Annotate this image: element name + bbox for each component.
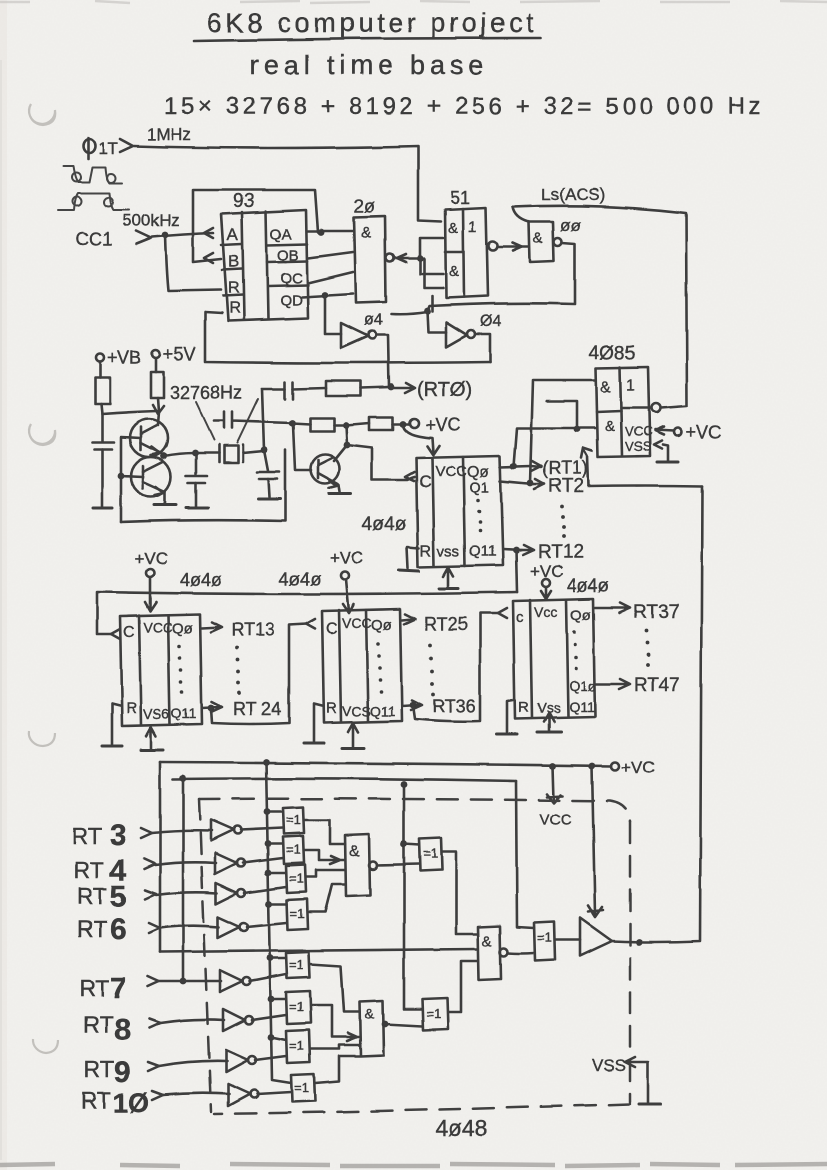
wire Q11 to RT12 — [503, 549, 522, 550]
svg-text:4ø4ø: 4ø4ø — [567, 576, 609, 596]
node +5V terminal — [152, 350, 160, 358]
junction bus xnor5 — [267, 955, 274, 962]
capacitor C1 — [92, 442, 114, 449]
wire RT36 to counter4 clock — [413, 613, 499, 721]
junction crystal left node — [192, 450, 199, 457]
inverter G5 — [220, 970, 243, 992]
wire RT24 to counter3 clock — [211, 624, 307, 724]
ground C2 — [186, 507, 208, 510]
svg-text:VCS: VCS — [342, 703, 371, 719]
xnor X5 — [286, 952, 310, 978]
inverter G3 — [216, 883, 238, 904]
wire T3 base — [293, 425, 311, 470]
wire 00 output loop down to phi4b input — [427, 243, 575, 311]
wire VCC pin arrow — [547, 766, 563, 803]
svg-text:Q11: Q11 — [469, 543, 496, 560]
inverter G6 — [223, 1009, 245, 1031]
chevron RT8 — [149, 1019, 160, 1028]
wire RT8 input — [160, 1019, 224, 1023]
ground U7 R — [102, 745, 122, 748]
leader line crystal label right — [237, 399, 258, 443]
svg-text:VCC: VCC — [435, 463, 467, 480]
wire bus to X7 — [271, 1037, 286, 1040]
counter U9 4040 box — [513, 599, 595, 719]
wire Q11 U8 to RT36 — [402, 700, 422, 710]
ground U9 R — [496, 733, 517, 736]
wire x404 to X9 upper input — [404, 844, 419, 845]
svg-text:4ø4ø: 4ø4ø — [279, 569, 321, 589]
svg-text:500kHz: 500kHz — [122, 211, 180, 230]
wire T2 base — [121, 476, 143, 477]
svg-text:VCC: VCC — [342, 615, 372, 631]
gate U2 2phi NAND box — [354, 216, 386, 303]
wire G3 to X3 — [245, 887, 286, 893]
svg-text:Qø: Qø — [570, 607, 591, 624]
node +VC terminal 4085 — [674, 428, 682, 436]
bubble G4 — [240, 923, 248, 931]
wire C3 to ground — [268, 479, 269, 497]
chevron RT10 — [152, 1091, 163, 1100]
svg-text:+VC: +VC — [425, 415, 461, 435]
capacitor C3 — [257, 472, 279, 479]
wire AND-A out to X9 — [377, 864, 419, 865]
svg-text:RT: RT — [74, 857, 104, 883]
junction x404 to X9 — [401, 841, 408, 848]
svg-text:RT: RT — [84, 1056, 114, 1082]
wire RT9 input — [159, 1061, 227, 1066]
wire inner left bus down to RT7 — [182, 778, 185, 981]
chevron RT6 — [149, 923, 160, 933]
arrowhead on 2phi output — [397, 254, 406, 262]
wire CC1 down to R input of 93 — [165, 235, 221, 291]
waveform doodle — [58, 166, 129, 210]
wire QB to gate 2phi — [308, 252, 353, 258]
wire node to R4 — [292, 423, 310, 424]
inverter G1 — [211, 820, 234, 841]
wire X6 out to AND-C — [311, 1005, 360, 1041]
hole punch 4 — [33, 1039, 58, 1053]
left paper band — [0, 0, 7, 1170]
svg-text:6K8 computer project: 6K8 computer project — [207, 8, 538, 38]
junction +VC feed node — [400, 421, 407, 428]
svg-text:QA: QA — [270, 226, 292, 243]
wire X4 out to AND-A — [308, 884, 345, 912]
svg-text:=1: =1 — [289, 999, 304, 1014]
wire LS ACS long loop to 4085 output — [513, 206, 687, 408]
svg-text:=1: =1 — [286, 812, 301, 827]
wire Q0 U7 to RT13 — [202, 622, 222, 632]
svg-text:øø: øø — [560, 216, 581, 235]
svg-text:3: 3 — [110, 819, 127, 852]
junction bus xnor7 — [268, 1034, 275, 1041]
chevron RT3 — [141, 828, 152, 838]
ground VSS bar — [639, 1103, 661, 1106]
svg-text:&: & — [448, 220, 458, 237]
wire R U9 to ground — [507, 700, 513, 732]
wire 51 bottom stub — [431, 296, 434, 311]
svg-text:RT25: RT25 — [424, 614, 468, 634]
buffer phi4a triangle — [341, 323, 368, 348]
svg-text:RT: RT — [77, 916, 107, 942]
ground 4040 R — [399, 570, 419, 571]
arrowhead into gate 00 — [513, 243, 522, 251]
svg-text:=1: =1 — [426, 1006, 441, 1021]
wire G5 to X5 — [250, 974, 286, 981]
wire Q0 to RT1 — [500, 466, 531, 467]
wire Q11 U7 to RT24 — [202, 702, 222, 712]
counter U1 7493 box — [221, 210, 308, 321]
wire 51 output to gate 00 — [498, 246, 528, 249]
svg-text:RT37: RT37 — [633, 602, 679, 623]
wire X1 out to AND-A — [304, 820, 345, 844]
svg-text:B: B — [228, 252, 239, 271]
wire G1 to X1 — [241, 828, 283, 830]
wire X5 out to AND-C — [310, 964, 360, 1012]
wire phi4b output loop to long return wire — [475, 334, 490, 362]
wire bus to X1 — [267, 811, 283, 814]
wire +VC to VCC U9 — [541, 587, 551, 599]
svg-text:9: 9 — [114, 1056, 131, 1089]
svg-text:R: R — [326, 700, 337, 717]
junction bus xnor4 — [266, 901, 273, 908]
svg-text:QC: QC — [280, 270, 303, 287]
title underline — [194, 38, 541, 41]
xnor X9 — [419, 838, 442, 871]
wire node to T3 collector — [334, 445, 347, 461]
chevron C input counter2 — [111, 629, 120, 639]
wire R4 to node2 — [334, 424, 346, 427]
junction AND-C output — [382, 1021, 389, 1028]
wire 1MHz from PHI1T to 51 block — [134, 146, 441, 222]
wire crystal right to node — [243, 451, 264, 453]
chevron C input counter3 — [306, 619, 315, 629]
svg-text:VCC: VCC — [143, 619, 173, 635]
svg-text:1T: 1T — [98, 139, 118, 158]
inverter G8 — [228, 1084, 250, 1106]
dashed 4048 boundary top — [199, 799, 630, 822]
wire RT3 input — [152, 831, 212, 833]
svg-text:RT: RT — [77, 883, 107, 909]
junction row2 left node — [289, 420, 296, 427]
svg-text:Q1: Q1 — [469, 479, 489, 496]
junction T3 collector node — [344, 442, 351, 449]
dashed 4048 boundary bottom — [214, 1104, 630, 1114]
gate U3 51 AND-OR box — [445, 208, 488, 298]
bubble phi4b — [467, 330, 475, 338]
inverter G7 — [226, 1050, 248, 1072]
wire buffer output to right rail — [612, 486, 702, 942]
bubble G8 — [250, 1090, 258, 1098]
xnor X6 — [286, 991, 311, 1024]
svg-text:RT13: RT13 — [231, 620, 275, 640]
wire bus to X3 — [268, 872, 286, 875]
svg-text:=1: =1 — [289, 1038, 304, 1053]
svg-text:RT: RT — [72, 823, 102, 849]
dots RT13 column — [234, 646, 241, 695]
xnor X4 — [287, 899, 308, 930]
svg-text:(RTØ): (RTØ) — [417, 379, 472, 401]
wire XNOR bus vertical — [266, 762, 291, 1083]
junction QD node — [322, 292, 329, 299]
wire bus to X2 — [268, 843, 283, 846]
svg-text:R: R — [518, 699, 529, 716]
junction line2 left — [180, 775, 187, 782]
xnor X3 — [286, 865, 306, 893]
gate AND-C box — [360, 1001, 384, 1056]
dots U9 column — [572, 630, 578, 671]
chevron C input counter4 — [498, 608, 507, 618]
arrow RT12 — [522, 545, 534, 555]
wire +VC into VCC pin — [655, 427, 674, 435]
dashed 4048 boundary left — [199, 799, 211, 1112]
junction bus xnor2 — [265, 841, 272, 848]
wire bus to X6 — [271, 998, 286, 1001]
chevron RT4 — [144, 859, 155, 869]
bubble 4085 output — [652, 404, 661, 413]
svg-text:15× 32768 + 8192 + 256 + 32= 5: 15× 32768 + 8192 + 256 + 32= 500 000 Hz — [164, 93, 764, 120]
wire X11 out to buffer — [555, 939, 580, 942]
ground T3 — [329, 493, 351, 496]
svg-text:Ø4: Ø4 — [480, 313, 501, 330]
wire G6 to X6 — [252, 1015, 286, 1020]
chevron A input — [204, 228, 213, 238]
node PHI1T input label — [83, 138, 133, 159]
resistor R5 — [369, 417, 393, 430]
svg-text:4ø4ø: 4ø4ø — [180, 570, 222, 590]
svg-text:Q11: Q11 — [171, 705, 197, 721]
xnor X2 — [283, 836, 304, 864]
ground U9 VSS — [537, 731, 561, 734]
wire Q0 U9 to RT37 — [595, 603, 630, 613]
chevron 4040 C input — [405, 472, 414, 481]
svg-text:(RT1): (RT1) — [542, 458, 588, 478]
wire node2 down to T3 — [346, 425, 347, 445]
svg-text:1: 1 — [468, 219, 477, 236]
wire 4085 reset from below — [583, 449, 588, 486]
svg-text:5: 5 — [110, 880, 127, 913]
arrowhead into 4085 bottom — [581, 448, 592, 458]
svg-text:vss: vss — [437, 543, 460, 560]
inverter G2 — [215, 853, 237, 874]
junction bus xnor1 — [264, 809, 271, 816]
svg-text:51: 51 — [450, 188, 470, 208]
junction RT36 node — [410, 702, 417, 709]
svg-text:A: A — [227, 225, 239, 244]
wire node to C2 — [195, 453, 198, 474]
wire RT12 to counter2 clock — [97, 592, 517, 634]
svg-text:Q11: Q11 — [370, 703, 396, 719]
svg-text:4ø4ø: 4ø4ø — [362, 514, 407, 535]
junction RT0 node — [388, 384, 395, 391]
svg-text:VSS: VSS — [592, 1056, 626, 1075]
svg-text:=1: =1 — [290, 906, 305, 921]
svg-text:8: 8 — [114, 1014, 131, 1047]
wire X2 out to AND-A — [304, 850, 345, 864]
counter U6 4040 box — [416, 456, 503, 567]
xnor X11 final — [534, 922, 555, 961]
svg-text:&: & — [349, 843, 360, 860]
buffer phi4b triangle — [446, 322, 467, 347]
svg-text:+VB: +VB — [107, 348, 142, 368]
node +VC terminal bottom — [611, 762, 619, 770]
wire 5V to R2 — [155, 358, 158, 372]
wire QC to gate 2phi — [308, 272, 353, 283]
dots U8 column — [376, 642, 383, 694]
svg-text:=1: =1 — [423, 846, 438, 861]
ground C3 — [258, 498, 280, 501]
capacitor C5 row2 — [214, 412, 292, 428]
dots RT column — [560, 505, 566, 538]
wire 4085 upper input — [530, 380, 596, 483]
svg-text:7: 7 — [110, 972, 127, 1005]
junction output wire — [636, 939, 643, 946]
chevron B input — [204, 253, 213, 263]
junction RT12 node — [513, 547, 520, 554]
svg-text:&: & — [605, 418, 615, 435]
wire VSS pin — [625, 1057, 648, 1102]
wire 4085 lower input — [514, 428, 597, 466]
wire CC1 to counter A input — [152, 233, 213, 237]
gate U4 LS AND box — [529, 222, 554, 262]
junction crystal right node — [261, 447, 268, 454]
svg-text:+VC: +VC — [686, 422, 722, 442]
gate AND-A box — [345, 834, 370, 896]
wire crystal node up to coupling cap C4 — [262, 389, 285, 450]
svg-text:VCC: VCC — [625, 424, 652, 439]
wire VB node to R2 node — [102, 411, 157, 414]
ground U8 R — [304, 742, 324, 745]
wire QD to gate 2phi — [302, 294, 353, 297]
wire QA to gate 2phi — [308, 230, 353, 233]
buffer BUF1 triangle — [580, 918, 612, 956]
bottom scan edge — [0, 1164, 827, 1166]
xnor X7 — [286, 1030, 310, 1063]
transistor T1 — [130, 419, 168, 457]
wire T2 emitter to ground — [164, 492, 167, 504]
wire +VC to VCC U8 — [343, 579, 354, 613]
xnor X1 — [283, 807, 304, 834]
junction phi4b node — [424, 308, 431, 315]
wire RT12 down to counter row — [516, 550, 517, 592]
junction T2 base node — [118, 473, 125, 480]
junction bus xnor6 — [268, 996, 275, 1003]
wire G2 to X2 — [243, 858, 283, 863]
wire G4 to X4 — [247, 923, 287, 927]
wire Q10 U9 to RT47 — [595, 679, 630, 689]
dots U7 column — [177, 644, 184, 694]
arrowhead into VCC — [427, 446, 439, 455]
junction R4 node2 — [343, 422, 350, 429]
wire outer box bottom to AND-B input — [160, 949, 478, 952]
wire crystal left — [195, 452, 219, 455]
svg-text:C: C — [419, 472, 431, 491]
hole punch 1 — [29, 104, 55, 125]
svg-text:1Ø: 1Ø — [113, 1088, 149, 1118]
inverter G4 — [218, 917, 240, 938]
wire stub upper feedback — [547, 401, 577, 429]
bubble 51 output — [489, 242, 498, 251]
svg-text:4Ø85: 4Ø85 — [589, 343, 635, 364]
gate U5 4085 box — [596, 367, 650, 457]
wire R1 to node — [101, 404, 102, 414]
wire R3 to RT0 node — [361, 387, 391, 388]
svg-text:Q1ø: Q1ø — [569, 678, 597, 694]
chevron RT5 — [145, 890, 156, 899]
svg-text:QB: QB — [277, 247, 299, 264]
svg-text:+VC: +VC — [621, 758, 655, 777]
bubble G5 — [243, 977, 251, 985]
wire +VC to VCC U7 — [145, 577, 156, 611]
svg-text:VCC: VCC — [540, 811, 572, 828]
wire line2 top — [173, 778, 516, 781]
wire long return to 93 R2 input — [205, 312, 490, 363]
hole punch 3 — [29, 731, 55, 746]
svg-text:QD: QD — [280, 292, 303, 309]
svg-text:RT2: RT2 — [548, 476, 584, 497]
xnor X10 — [422, 998, 448, 1030]
wire RT7 input — [159, 980, 221, 983]
junction RT1 node — [511, 463, 518, 470]
junction RT2 node — [527, 480, 534, 487]
wire node to phi4b input — [427, 311, 446, 332]
svg-text:=1: =1 — [286, 842, 301, 857]
resistor R3 — [326, 381, 361, 396]
node +VB terminal — [96, 354, 104, 362]
gate AND-B box — [478, 926, 501, 980]
svg-text:+VC: +VC — [134, 549, 168, 568]
wire QD down to buffer phi4a — [325, 295, 341, 334]
xnor X8 — [291, 1074, 315, 1102]
transistor T2 — [131, 457, 171, 497]
svg-text:R: R — [126, 700, 137, 717]
svg-text:Vcc: Vcc — [534, 604, 557, 620]
wire bus to X4 — [269, 903, 287, 906]
wire line2 down to final XNOR — [516, 781, 534, 928]
svg-text:R: R — [420, 543, 432, 560]
arrowhead at T1 collector — [153, 405, 164, 414]
bubble G7 — [248, 1056, 256, 1064]
bubble G1 — [234, 826, 242, 834]
bubble G6 — [245, 1016, 253, 1024]
wire G7 to X7 — [255, 1056, 286, 1060]
hole punch 2 — [29, 424, 55, 445]
svg-text:RT36: RT36 — [432, 696, 476, 716]
junction bus xnor3 — [265, 870, 272, 877]
capacitor C4 — [285, 382, 293, 399]
wire QA feedback wrapper to B input — [193, 190, 318, 262]
transistor T3 — [311, 455, 340, 489]
ground T2 — [154, 504, 176, 507]
wire node to 4040 clock input — [347, 445, 414, 480]
svg-text:C: C — [123, 624, 135, 641]
junction T1 emitter T2 collector — [161, 453, 168, 460]
left scan edge — [0, 60, 2, 1160]
svg-text:RT: RT — [79, 975, 109, 1001]
svg-text:&: & — [365, 1006, 375, 1022]
wire node down to C1 — [101, 414, 104, 441]
wire RT6 input — [160, 926, 219, 928]
node +VC terminal top — [410, 419, 419, 428]
dots RT37 column — [644, 629, 650, 667]
dots RT25 column — [428, 643, 435, 696]
wire R2 to T1 collector — [158, 398, 159, 424]
wire R U7 to ground — [112, 704, 120, 744]
ground U8 VSS — [342, 747, 364, 750]
junction line2 to x404 — [401, 781, 408, 788]
ground C1 — [93, 507, 112, 510]
junction RT7 bus — [180, 978, 187, 985]
svg-text:1MHz: 1MHz — [147, 125, 191, 144]
